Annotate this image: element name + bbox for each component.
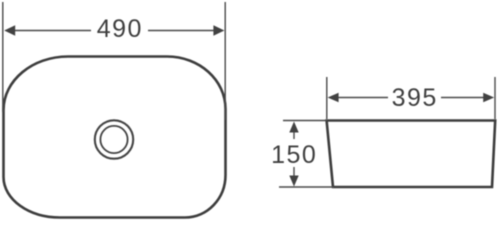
arrowhead 395 left [328, 93, 339, 102]
svg-text:395: 395 [392, 84, 438, 112]
svg-text:150: 150 [271, 141, 317, 169]
dimension line 150 upper segment [293, 130, 295, 139]
svg-text:490: 490 [97, 15, 143, 43]
extension line left of 490 [2, 2, 4, 112]
extension line right of 395 [494, 77, 496, 119]
dimension line 150 lower segment [293, 167, 295, 178]
arrowhead 490 right [213, 25, 224, 36]
arrowhead 395 right [483, 93, 494, 102]
drain outer circle [95, 120, 133, 158]
drain inner circle [100, 126, 127, 153]
dimension line 395 left segment [336, 97, 388, 99]
extension line top of 150 [283, 120, 327, 122]
trapezoid side-view outline [327, 121, 496, 188]
arrowhead 150 up [289, 122, 298, 133]
arrowhead 490 left [4, 25, 15, 36]
arrowhead 150 down [289, 176, 298, 187]
extension line bottom of 150 [279, 186, 334, 188]
extension line left of 395 [326, 77, 328, 119]
dimension line 490 left segment [13, 30, 91, 32]
extension line right of 490 [224, 2, 226, 120]
dimension line 395 right segment [441, 97, 486, 99]
dimension line 490 right segment [148, 30, 216, 32]
basin top-view outline [4, 57, 226, 218]
